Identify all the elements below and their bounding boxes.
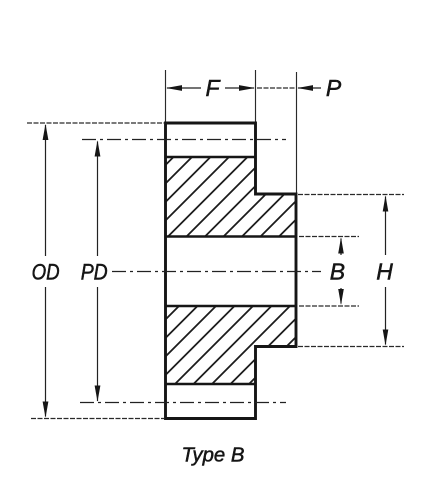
svg-text:PD: PD: [81, 259, 108, 284]
dimension line OD: [45, 125, 47, 417]
bore axis centerline: [112, 271, 321, 273]
rim inner edge bottom: [165, 383, 257, 386]
hatching upper block: [0, 80, 426, 460]
svg-text:OD: OD: [32, 259, 60, 284]
gear outline: [166, 123, 297, 419]
arrow PD bottom: [95, 386, 101, 402]
extension line B bottom: [299, 305, 359, 307]
hatching lower block: [25, 80, 426, 460]
arrow P: [297, 85, 313, 91]
arrow PD top: [95, 140, 101, 156]
extension line OD top: [27, 122, 164, 124]
extension line H bottom: [298, 346, 404, 348]
dimension line F: [167, 87, 254, 89]
extension line F right: [255, 70, 257, 122]
bore top edge: [165, 235, 298, 238]
arrow OD top: [43, 124, 49, 140]
extension line B top: [299, 236, 359, 238]
pitch centerline top: [82, 139, 286, 141]
arrow OD bottom: [43, 402, 49, 418]
arrow F left: [166, 85, 182, 91]
svg-text:P: P: [326, 75, 342, 101]
arrow H top: [383, 195, 389, 211]
extension line OD bottom: [31, 418, 164, 420]
bore bottom edge: [165, 305, 298, 308]
svg-text:B: B: [330, 258, 345, 284]
rim inner edge top: [165, 156, 257, 159]
dimension line PD: [97, 142, 99, 402]
dimension line B: [340, 239, 342, 304]
extension line H top: [298, 194, 404, 196]
extension line F left: [165, 70, 167, 122]
dimension line P segment: [257, 87, 295, 89]
svg-text:Type B: Type B: [182, 444, 245, 467]
arrow B top: [338, 237, 344, 253]
dimension line P leader: [298, 87, 321, 89]
pitch centerline bottom: [80, 402, 286, 404]
svg-text:F: F: [205, 75, 221, 101]
arrow H bottom: [383, 330, 389, 346]
arrow F right: [239, 85, 255, 91]
arrow B bottom: [338, 289, 344, 305]
dimension line H: [385, 197, 387, 345]
svg-text:H: H: [376, 258, 393, 284]
extension line P: [296, 72, 298, 193]
